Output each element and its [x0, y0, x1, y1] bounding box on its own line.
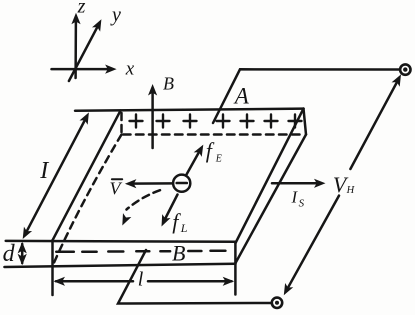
magnetic field B arrow: [148, 84, 157, 148]
V_H measure line lower segment: [280, 196, 339, 298]
deflected trajectory dashed curve: [118, 190, 160, 227]
V overbar: [112, 178, 122, 180]
slab front-left vertical edge and l extension: [51, 240, 54, 295]
slab back right vertical edge: [304, 109, 307, 135]
hidden bottom left edge (dashed): [53, 135, 122, 267]
label V bar: [110, 179, 123, 199]
top terminal: [400, 64, 410, 74]
svg-text:y: y: [110, 4, 121, 26]
slab top face right edge: [236, 109, 304, 243]
svg-text:z: z: [77, 0, 86, 18]
svg-text:I: I: [39, 158, 49, 184]
plus charges on top surface: [130, 115, 302, 128]
electron charge circle: [173, 175, 190, 192]
svg-text:I: I: [291, 188, 299, 207]
svg-text:A: A: [233, 84, 250, 109]
force f_E arrow: [187, 142, 208, 174]
svg-text:L: L: [180, 221, 188, 235]
slab front-right vertical edge and l extension: [234, 242, 237, 295]
svg-text:V: V: [110, 179, 123, 199]
bottom terminal: [272, 298, 282, 308]
dimension I line (current lead-in): [19, 110, 93, 241]
svg-text:B: B: [172, 241, 185, 266]
slab front bottom edge with d extension: [4, 264, 235, 267]
label V_H: [333, 172, 356, 197]
current I_S arrow: [272, 179, 326, 188]
svg-text:d: d: [3, 241, 16, 267]
label f_E: [206, 138, 222, 165]
slab top face left edge: [53, 111, 121, 241]
svg-text:B: B: [163, 74, 174, 94]
force f_L arrow: [157, 195, 177, 229]
label f_L: [172, 209, 187, 235]
axis z: [71, 13, 80, 78]
V_H measure line upper segment: [350, 72, 405, 169]
svg-text:l: l: [138, 269, 144, 291]
dimension d arrows: [18, 242, 27, 265]
velocity V arrow: [125, 179, 173, 188]
svg-text:S: S: [299, 197, 305, 209]
label I_S: [291, 188, 305, 210]
hidden back-left vertical edge (dashed): [120, 113, 123, 135]
axis x: [52, 65, 117, 74]
svg-text:f: f: [206, 138, 215, 163]
slab right face bottom edge: [236, 135, 307, 264]
dimension l line: [54, 277, 235, 286]
slab top back edge with I extension: [75, 109, 304, 111]
wire from surface A to top terminal: [213, 69, 399, 123]
svg-text:E: E: [215, 154, 222, 165]
svg-text:H: H: [346, 185, 356, 196]
hidden bottom back edge (dashed): [123, 133, 303, 136]
svg-text:x: x: [125, 59, 135, 80]
slab front top edge with d extension: [6, 240, 236, 243]
minus charges row on front face: [56, 250, 225, 253]
wire from surface B to bottom terminal: [118, 250, 272, 304]
axis y: [69, 17, 106, 81]
